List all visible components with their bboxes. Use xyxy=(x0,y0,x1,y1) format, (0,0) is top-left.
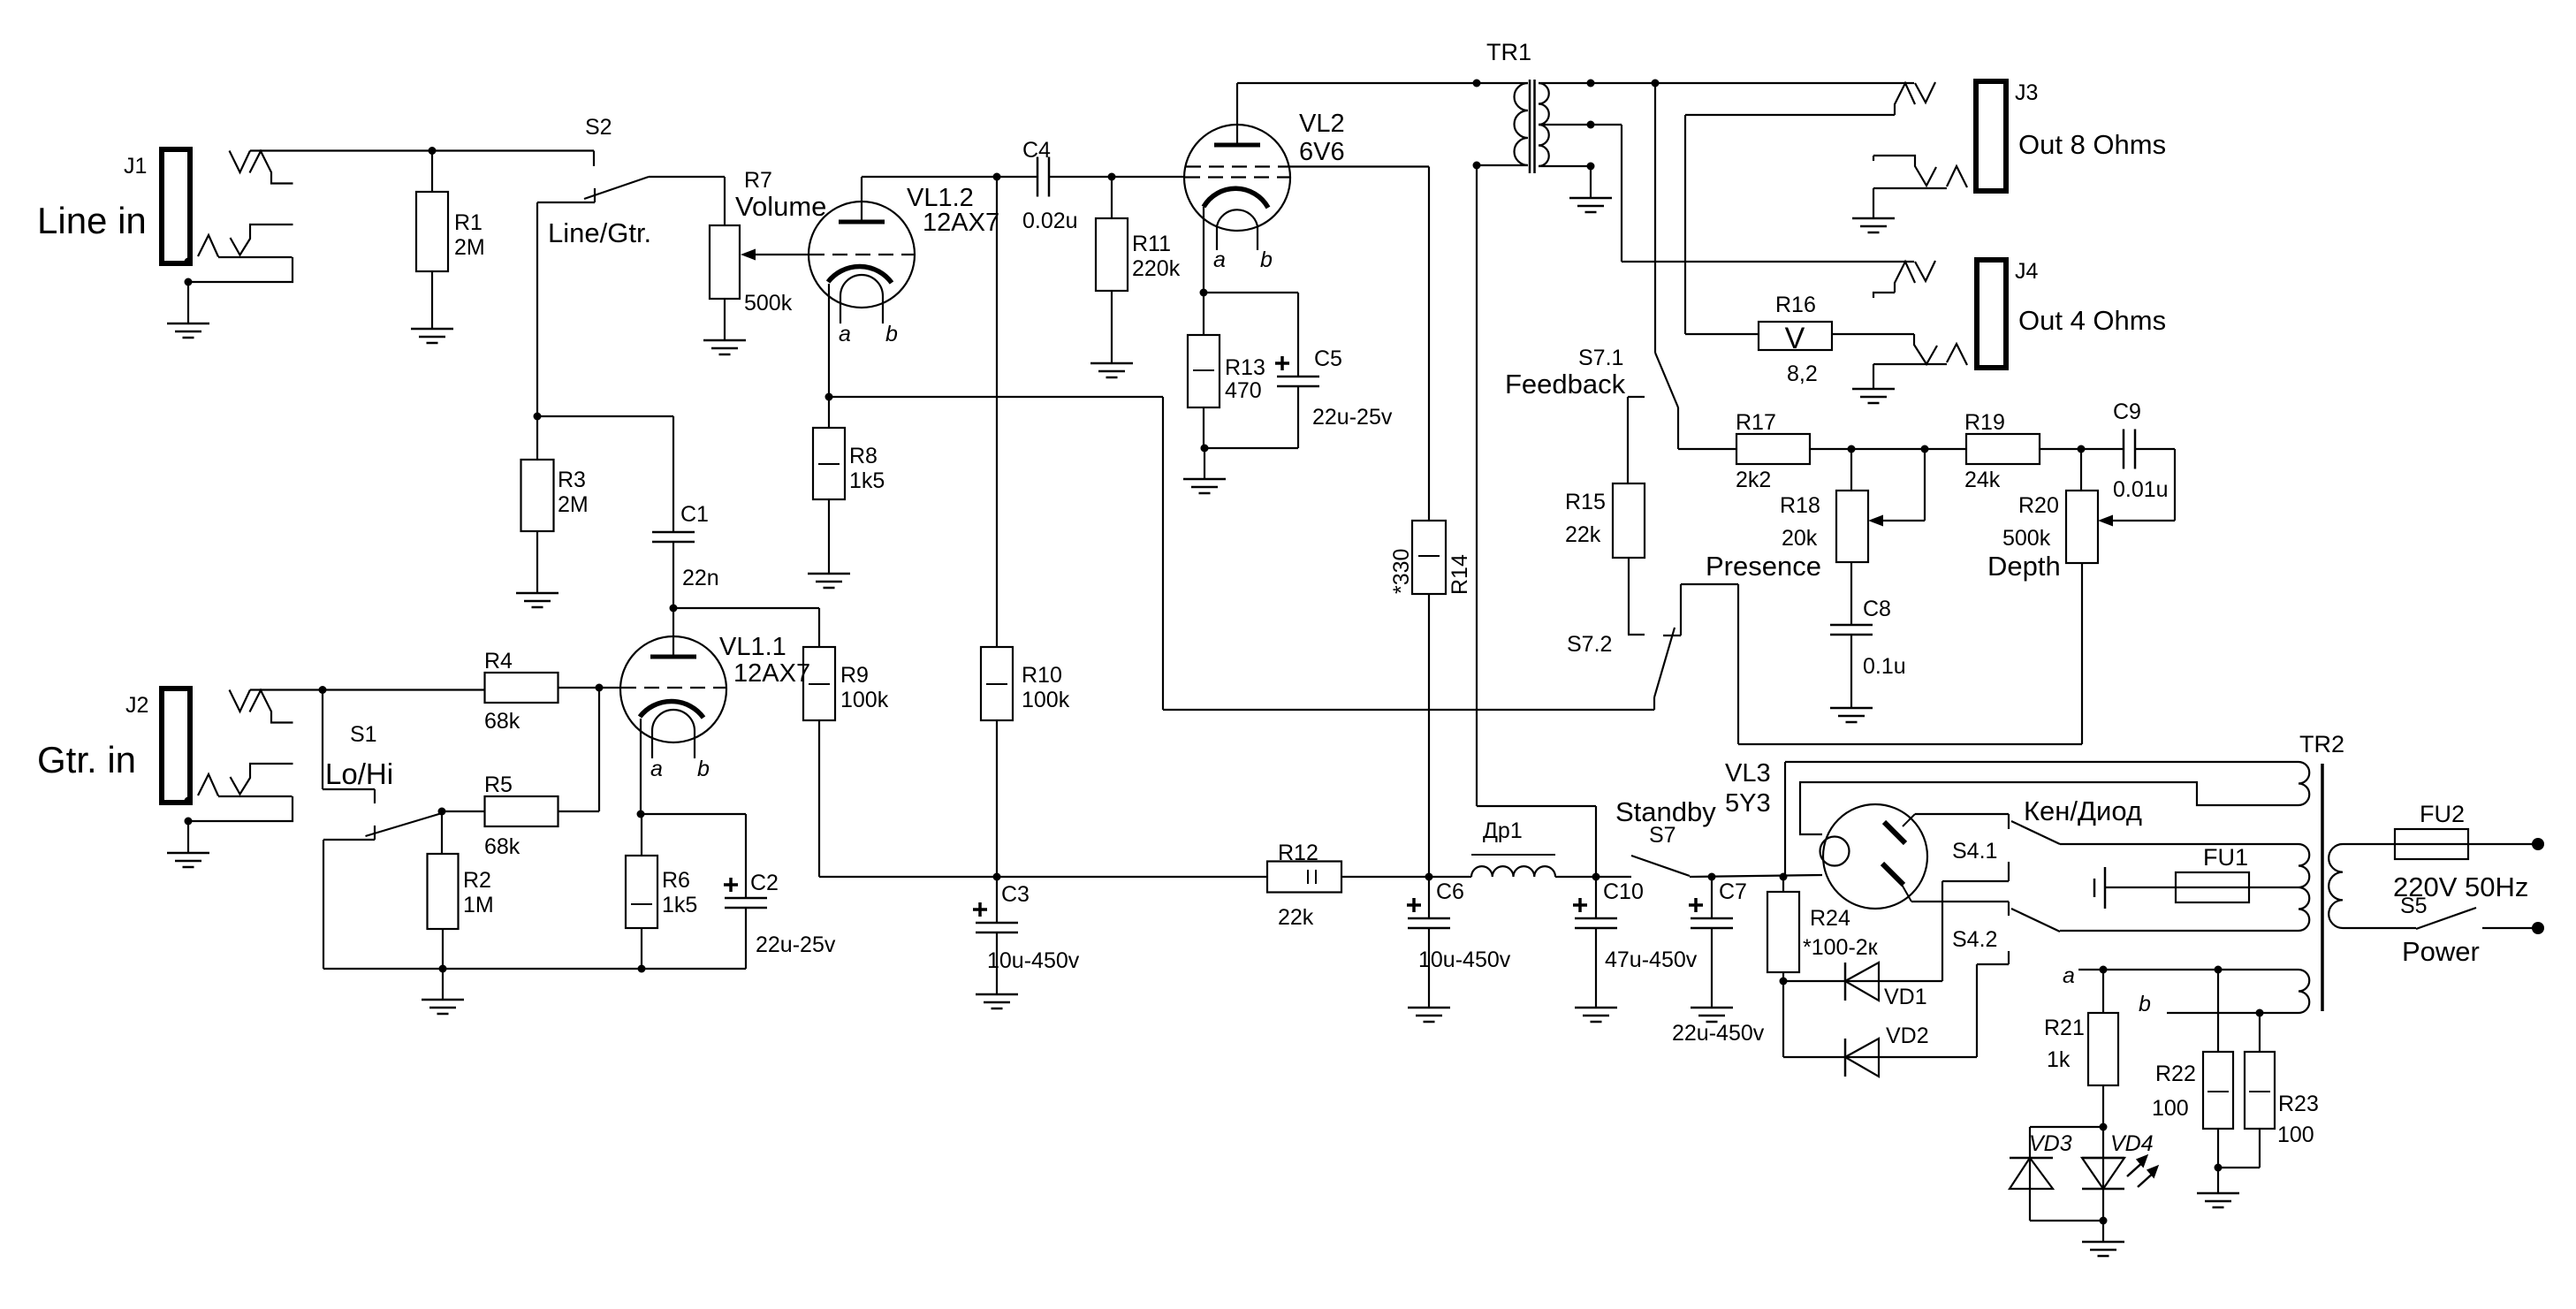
switch S4.2 contact 2 xyxy=(1977,951,2009,964)
ground R1 xyxy=(411,329,453,343)
svg-text:Volume: Volume xyxy=(735,191,826,222)
label S4.1 xyxy=(1952,839,1997,864)
wire R19 right xyxy=(2040,448,2124,450)
svg-text:R12: R12 xyxy=(1278,841,1318,865)
switch S5 contact xyxy=(2482,927,2533,929)
node R13/C5 xyxy=(1201,445,1209,453)
svg-text:22u-25v: 22u-25v xyxy=(756,932,836,957)
svg-text:S7: S7 xyxy=(1649,823,1676,848)
capacitor C10 xyxy=(1573,898,1617,928)
svg-text:C1: C1 xyxy=(680,502,709,527)
VL1.2 cathode lead xyxy=(828,284,830,397)
svg-text:a: a xyxy=(839,322,851,346)
svg-text:Power: Power xyxy=(2402,936,2480,967)
svg-text:S5: S5 xyxy=(2400,894,2428,918)
wire R3 top xyxy=(536,416,538,460)
VL1.2 heater stubs xyxy=(840,296,883,323)
svg-text:0.1u: 0.1u xyxy=(1863,654,1906,679)
wire R2 top xyxy=(441,811,443,854)
node wiper R18 takeoff xyxy=(1921,445,1929,453)
label Depth xyxy=(1987,551,2061,582)
svg-text:a: a xyxy=(2063,963,2075,988)
label R20 xyxy=(2002,493,2059,551)
svg-text:2M: 2M xyxy=(454,235,485,260)
svg-text:C2: C2 xyxy=(750,871,779,895)
ground R3 xyxy=(516,593,559,607)
label FU1 xyxy=(2203,844,2248,871)
potentiometer R20 xyxy=(2066,491,2098,563)
wire R13 bottom xyxy=(1204,407,1204,479)
label Ken/Diod xyxy=(2024,795,2142,826)
svg-text:1k: 1k xyxy=(2047,1047,2071,1072)
node R22/R23 xyxy=(2215,1164,2223,1172)
wire S7.2 blade stub xyxy=(1653,697,1655,710)
svg-text:22n: 22n xyxy=(682,566,719,590)
wire cathode to C5 xyxy=(1204,293,1298,377)
svg-text:2M: 2M xyxy=(558,492,589,517)
svg-text:R1: R1 xyxy=(454,210,483,235)
wire R13 top xyxy=(1203,293,1204,335)
switch S7.2 contact xyxy=(1663,584,1681,635)
wire S4.1 to TR2 xyxy=(2060,843,2299,845)
svg-text:VL1.1: VL1.1 xyxy=(719,633,786,661)
wire node A to C1 xyxy=(537,416,673,532)
wire S7.1 blade to R17 xyxy=(1678,407,1736,449)
svg-text:Depth: Depth xyxy=(1987,551,2061,582)
svg-text:47u-450v: 47u-450v xyxy=(1605,948,1698,972)
node R17/R18 xyxy=(1848,445,1856,453)
wire C2 bottom xyxy=(745,908,747,969)
node VL1.2 anode / R10 xyxy=(993,173,1001,181)
wire S2 to node A xyxy=(536,202,538,416)
svg-text:8,2: 8,2 xyxy=(1787,361,1818,386)
label J2 xyxy=(125,693,148,718)
resistor R1 xyxy=(416,192,448,271)
wire S7 right xyxy=(1690,875,1822,877)
VL1.2 heater xyxy=(840,275,883,296)
svg-text:12AX7: 12AX7 xyxy=(733,659,810,688)
wire TR1 primary bottom to rail xyxy=(1477,165,1596,877)
svg-text:C3: C3 xyxy=(1001,882,1030,907)
svg-text:VD4: VD4 xyxy=(2110,1131,2154,1156)
label Feedback xyxy=(1505,369,1626,400)
label C10 xyxy=(1603,879,1698,972)
svg-text:5Y3: 5Y3 xyxy=(1725,789,1771,818)
switch S4.2 blade xyxy=(2011,909,2060,932)
label R19 xyxy=(1964,410,2005,492)
resistor R16 xyxy=(1759,322,1832,355)
ground R7 xyxy=(703,340,746,354)
label 500k xyxy=(744,291,793,316)
svg-text:*330: *330 xyxy=(1389,549,1414,594)
wire center tap to J4 xyxy=(1591,125,1914,262)
VL2 cathode xyxy=(1204,188,1268,208)
label R16 xyxy=(1775,293,1818,386)
wire R1 top xyxy=(431,151,433,193)
wiper R7 xyxy=(741,249,809,261)
resistor R4 xyxy=(485,673,559,703)
svg-text:100k: 100k xyxy=(840,688,889,712)
svg-text:R3: R3 xyxy=(558,468,586,492)
label Gtr. in xyxy=(37,739,136,780)
svg-text:1M: 1M xyxy=(463,893,494,917)
wire C3 bottom xyxy=(996,932,998,994)
jack J2 ring contact xyxy=(231,764,293,795)
VL2 heater xyxy=(1217,209,1258,226)
svg-text:S7.1: S7.1 xyxy=(1578,346,1623,370)
switch S4.1 contact 2 xyxy=(1942,862,2009,881)
label C7 xyxy=(1672,879,1765,1046)
TR2 heater winding xyxy=(2078,970,2309,1013)
node R5/R2/S1 xyxy=(438,808,446,816)
svg-text:R18: R18 xyxy=(1780,493,1820,518)
capacitor C1 xyxy=(652,532,695,542)
wire C7 bottom xyxy=(1711,928,1713,1008)
wire R23 bottom xyxy=(2218,1129,2260,1168)
svg-text:S1: S1 xyxy=(350,722,377,747)
svg-text:0.02u: 0.02u xyxy=(1022,209,1078,233)
node R4/R5/grid xyxy=(596,684,604,692)
svg-text:R5: R5 xyxy=(484,772,513,797)
wire J1 tip to S2 xyxy=(250,149,594,151)
VL1.1 heater xyxy=(652,710,695,731)
node C4 / R11 xyxy=(1108,173,1116,181)
wire R8 bottom xyxy=(828,499,830,574)
wire Dr1 to C10 xyxy=(1555,876,1631,878)
svg-text:Line in: Line in xyxy=(37,200,147,241)
svg-text:Presence: Presence xyxy=(1706,551,1821,582)
svg-text:500k: 500k xyxy=(744,291,793,316)
VL1.2 grid xyxy=(809,254,914,255)
wire C5 bottom xyxy=(1204,386,1298,448)
node B+ / R24 xyxy=(1780,873,1788,881)
label Dr1 xyxy=(1483,818,1523,843)
wire R6 top xyxy=(641,814,642,856)
wire R21 top xyxy=(2102,970,2104,1013)
wire R23 top xyxy=(2259,1013,2261,1052)
svg-text:S2: S2 xyxy=(585,115,612,140)
svg-text:1k5: 1k5 xyxy=(849,468,885,493)
label Power xyxy=(2402,936,2480,967)
switch S4.1 blade xyxy=(2011,821,2060,844)
label R21 xyxy=(2044,1016,2085,1072)
fuse FU1 xyxy=(2105,872,2299,902)
svg-text:Feedback: Feedback xyxy=(1505,369,1626,400)
label C9 xyxy=(2113,400,2169,502)
wire R11 bottom xyxy=(1111,291,1113,363)
svg-text:VD1: VD1 xyxy=(1884,985,1927,1009)
wire R5 left xyxy=(442,811,485,812)
VL2 screen wire xyxy=(1289,167,1429,521)
node TR1 primary bottom xyxy=(1473,162,1481,170)
node J2 sleeve xyxy=(185,797,193,826)
node C10 tap xyxy=(1592,873,1600,881)
wire VL3 anode1 to S4.1 xyxy=(1915,814,2009,829)
label R22 xyxy=(2152,1062,2196,1121)
jack J3 sleeve contact xyxy=(1873,166,1967,188)
node C3 tap xyxy=(993,873,1001,881)
wire C3 top xyxy=(996,877,998,923)
capacitor C2 xyxy=(724,878,767,908)
jack J4 sleeve contact xyxy=(1873,344,1967,365)
svg-text:100: 100 xyxy=(2277,1123,2314,1147)
resistor R17 xyxy=(1736,434,1810,464)
label C3 xyxy=(987,882,1080,973)
wire C10 bottom xyxy=(1595,928,1597,1008)
svg-text:22k: 22k xyxy=(1278,905,1314,930)
wire feedback tap down xyxy=(1654,83,1656,353)
wire R24 top xyxy=(1782,877,1784,892)
label C6 xyxy=(1418,879,1511,972)
VL2 cathode lead xyxy=(1203,207,1204,293)
rectifier VL3 envelope xyxy=(1823,804,1927,909)
resistor R21 xyxy=(2088,1013,2118,1085)
label J1 xyxy=(124,154,147,179)
svg-text:Lo/Hi: Lo/Hi xyxy=(325,757,393,790)
wire R4 right xyxy=(558,687,621,689)
capacitor C9 xyxy=(2124,430,2135,469)
svg-text:22u-25v: 22u-25v xyxy=(1312,405,1393,430)
wire J3 sleeve to ground xyxy=(1873,188,1874,218)
resistor R24 xyxy=(1767,892,1799,972)
label S2 xyxy=(585,115,612,140)
ground C3 xyxy=(976,994,1018,1008)
capacitor C7 xyxy=(1689,898,1733,928)
node VL1.2 cathode / R8 xyxy=(825,393,833,401)
jack J3 body xyxy=(1976,81,2006,191)
resistor R6 xyxy=(626,856,657,928)
ground C7 xyxy=(1691,1008,1733,1022)
ground TR1 secondary xyxy=(1569,198,1612,212)
svg-text:TR2: TR2 xyxy=(2299,731,2344,757)
svg-text:470: 470 xyxy=(1225,378,1262,403)
label S7.2 xyxy=(1567,632,1612,657)
svg-text:FU2: FU2 xyxy=(2420,801,2465,827)
svg-text:R10: R10 xyxy=(1022,663,1062,688)
svg-text:R11: R11 xyxy=(1132,232,1171,256)
potentiometer R7 xyxy=(710,225,740,299)
wire C8 bottom xyxy=(1850,635,1852,708)
label FU2 xyxy=(2420,801,2465,827)
wire R16 left xyxy=(1685,333,1759,335)
switch S2 blade xyxy=(584,177,649,199)
label VL3 xyxy=(1725,759,1771,818)
VL1.2 pin labels xyxy=(839,322,898,346)
VL1.1 anode xyxy=(650,608,696,657)
switch S2 lower contact xyxy=(537,188,595,202)
svg-text:22u-450v: 22u-450v xyxy=(1672,1021,1765,1046)
label heater a xyxy=(2063,963,2075,988)
svg-text:TR1: TR1 xyxy=(1486,39,1531,65)
wire R15 bottom xyxy=(1628,558,1645,635)
svg-text:220k: 220k xyxy=(1132,256,1181,281)
ground J1 xyxy=(167,323,209,338)
svg-text:R2: R2 xyxy=(463,868,491,893)
wire VL1.2 anode to C4 xyxy=(862,176,1037,178)
wire C7 top xyxy=(1711,877,1713,918)
VL1.1 grid xyxy=(621,687,726,689)
wire R6 bottom xyxy=(641,928,642,969)
VL3 anode 2 xyxy=(1882,864,1911,902)
label R4 xyxy=(484,649,521,734)
svg-text:Др1: Др1 xyxy=(1483,818,1523,843)
svg-text:0.01u: 0.01u xyxy=(2113,477,2169,502)
node R21/VD3/VD4 xyxy=(2100,1123,2108,1131)
label R15 xyxy=(1565,490,1606,547)
capacitor C8 xyxy=(1830,625,1873,635)
label Out 4 Ohms xyxy=(2018,305,2166,336)
svg-text:S4.1: S4.1 xyxy=(1952,839,1997,864)
svg-text:J2: J2 xyxy=(125,693,148,718)
wire TR1 sec bottom xyxy=(1590,166,1592,198)
node heater a / R22 xyxy=(2215,966,2223,974)
VL2 anode xyxy=(1214,83,1260,145)
svg-text:R14: R14 xyxy=(1448,554,1472,595)
svg-text:R17: R17 xyxy=(1736,410,1776,435)
svg-text:R15: R15 xyxy=(1565,490,1606,514)
label R2 xyxy=(463,868,494,917)
resistor R22 xyxy=(2203,1052,2233,1129)
wire to ground R22 xyxy=(2217,1168,2219,1193)
label S5 xyxy=(2400,894,2428,918)
wire R21 bottom xyxy=(2102,1085,2104,1127)
ground R8 xyxy=(808,574,850,588)
label VL1.2 xyxy=(907,184,999,237)
triode VL1.2 envelope xyxy=(809,202,915,308)
resistor R9 xyxy=(803,647,835,720)
jack J2 sleeve contact xyxy=(198,774,293,796)
resistor R8 xyxy=(813,428,845,499)
svg-text:R7: R7 xyxy=(744,168,772,193)
svg-text:20k: 20k xyxy=(1782,526,1818,551)
capacitor C6 xyxy=(1407,898,1450,928)
node R24/VD1/VD2 xyxy=(1780,978,1788,986)
switch S2 upper stub xyxy=(593,151,595,167)
svg-text:a: a xyxy=(650,757,663,781)
TR2 primary winding xyxy=(2329,844,2416,928)
label VD4 xyxy=(2110,1131,2154,1156)
label Lo/Hi xyxy=(325,757,393,790)
VL3 filament xyxy=(1820,837,1850,866)
label R3 xyxy=(558,468,589,517)
wire R22 bottom xyxy=(2217,1129,2219,1168)
wire C6 top xyxy=(1428,877,1430,918)
svg-text:VL2: VL2 xyxy=(1299,110,1345,138)
label C8 xyxy=(1863,597,1906,679)
wire R16 to J3 switch xyxy=(1685,115,1895,334)
wire 5V top to B+ node xyxy=(1784,762,1786,877)
wire C4 to VL2 grid xyxy=(1049,176,1185,178)
capacitor C5 xyxy=(1275,356,1319,386)
switch S7.1 blade xyxy=(1655,353,1678,407)
VL3 anode 1 xyxy=(1884,814,1915,843)
diode VD1 xyxy=(1783,881,1942,1001)
svg-text:VL3: VL3 xyxy=(1725,759,1771,788)
diode VD3 xyxy=(2010,1127,2103,1221)
wire J4 sleeve to ground xyxy=(1873,364,1874,389)
resistor R5 xyxy=(485,796,559,826)
TR2 HV winding xyxy=(2299,844,2309,931)
svg-text:b: b xyxy=(1260,247,1273,272)
node heater a / R21 xyxy=(2100,966,2108,974)
svg-text:VD2: VD2 xyxy=(1886,1024,1929,1048)
LED VD4 xyxy=(2082,1127,2124,1221)
jack J2 tip contact xyxy=(230,690,293,723)
node TR1 primary top xyxy=(1473,80,1481,88)
label VD3 xyxy=(2029,1131,2072,1156)
resistor R15 xyxy=(1613,483,1645,558)
node TR1 sec feedback tap xyxy=(1652,80,1660,88)
svg-text:R19: R19 xyxy=(1964,410,2005,435)
ground J4 xyxy=(1852,389,1895,403)
svg-text:R6: R6 xyxy=(662,868,690,893)
svg-text:R20: R20 xyxy=(2018,493,2059,518)
svg-text:Line/Gtr.: Line/Gtr. xyxy=(548,217,651,248)
node J2 tip xyxy=(319,686,327,694)
wire VD4 to ground xyxy=(2102,1221,2104,1242)
wire contact to R15 xyxy=(1627,397,1629,483)
svg-text:J1: J1 xyxy=(124,154,147,179)
svg-text:b: b xyxy=(885,322,898,346)
wire S7.2 to R20 bottom xyxy=(1681,563,2082,744)
label R18 xyxy=(1780,493,1820,551)
ground J3 xyxy=(1852,218,1895,232)
switch S1 lower contact xyxy=(323,826,375,969)
label S4.2 xyxy=(1952,927,1997,952)
wire C10 top xyxy=(1595,877,1597,918)
svg-text:2k2: 2k2 xyxy=(1736,468,1771,492)
svg-text:Кен/Диод: Кен/Диод xyxy=(2024,795,2142,826)
wire R12 right xyxy=(1341,876,1471,878)
node mains L xyxy=(2532,838,2544,850)
jack J1 sleeve contact xyxy=(198,235,293,257)
ground rail input stage xyxy=(323,968,746,970)
wire J1 sleeve loop xyxy=(188,257,293,282)
wire R2 bottom xyxy=(442,929,444,969)
svg-text:68k: 68k xyxy=(484,834,521,859)
label R24 xyxy=(1803,906,1879,960)
label Out 8 Ohms xyxy=(2018,129,2166,160)
label heater b xyxy=(2139,992,2151,1016)
label R12 xyxy=(1278,841,1318,930)
label R10 xyxy=(1022,663,1070,712)
VL2 grids xyxy=(1185,167,1289,178)
jack J4 tip contact xyxy=(1873,261,1935,298)
wire R5 right xyxy=(558,811,599,812)
wire R2 dot to ground sym xyxy=(442,969,444,1000)
ground C8 xyxy=(1830,708,1873,722)
wire S4.2 to TR2 xyxy=(2060,930,2299,932)
label 220V 50Hz xyxy=(2393,871,2528,902)
VL1.1 cathode lead xyxy=(640,719,642,814)
svg-text:J3: J3 xyxy=(2015,80,2038,105)
label R14 rotated xyxy=(1389,549,1472,595)
svg-text:100k: 100k xyxy=(1022,688,1070,712)
svg-text:R23: R23 xyxy=(2278,1092,2319,1116)
capacitor C4 xyxy=(1037,157,1049,197)
TR1 core xyxy=(1530,80,1535,173)
label Standby xyxy=(1615,796,1716,848)
wiper R20 xyxy=(2098,449,2175,527)
wire R18 top xyxy=(1850,449,1852,491)
node mains N xyxy=(2532,922,2544,934)
svg-text:Out 4 Ohms: Out 4 Ohms xyxy=(2018,305,2166,336)
node C7 tap xyxy=(1708,873,1716,881)
jack J3 tip contact xyxy=(1895,82,1935,115)
VL1.1 heater stubs xyxy=(652,731,695,758)
jack J4 body xyxy=(1977,260,2006,368)
label TR1 xyxy=(1486,39,1531,65)
